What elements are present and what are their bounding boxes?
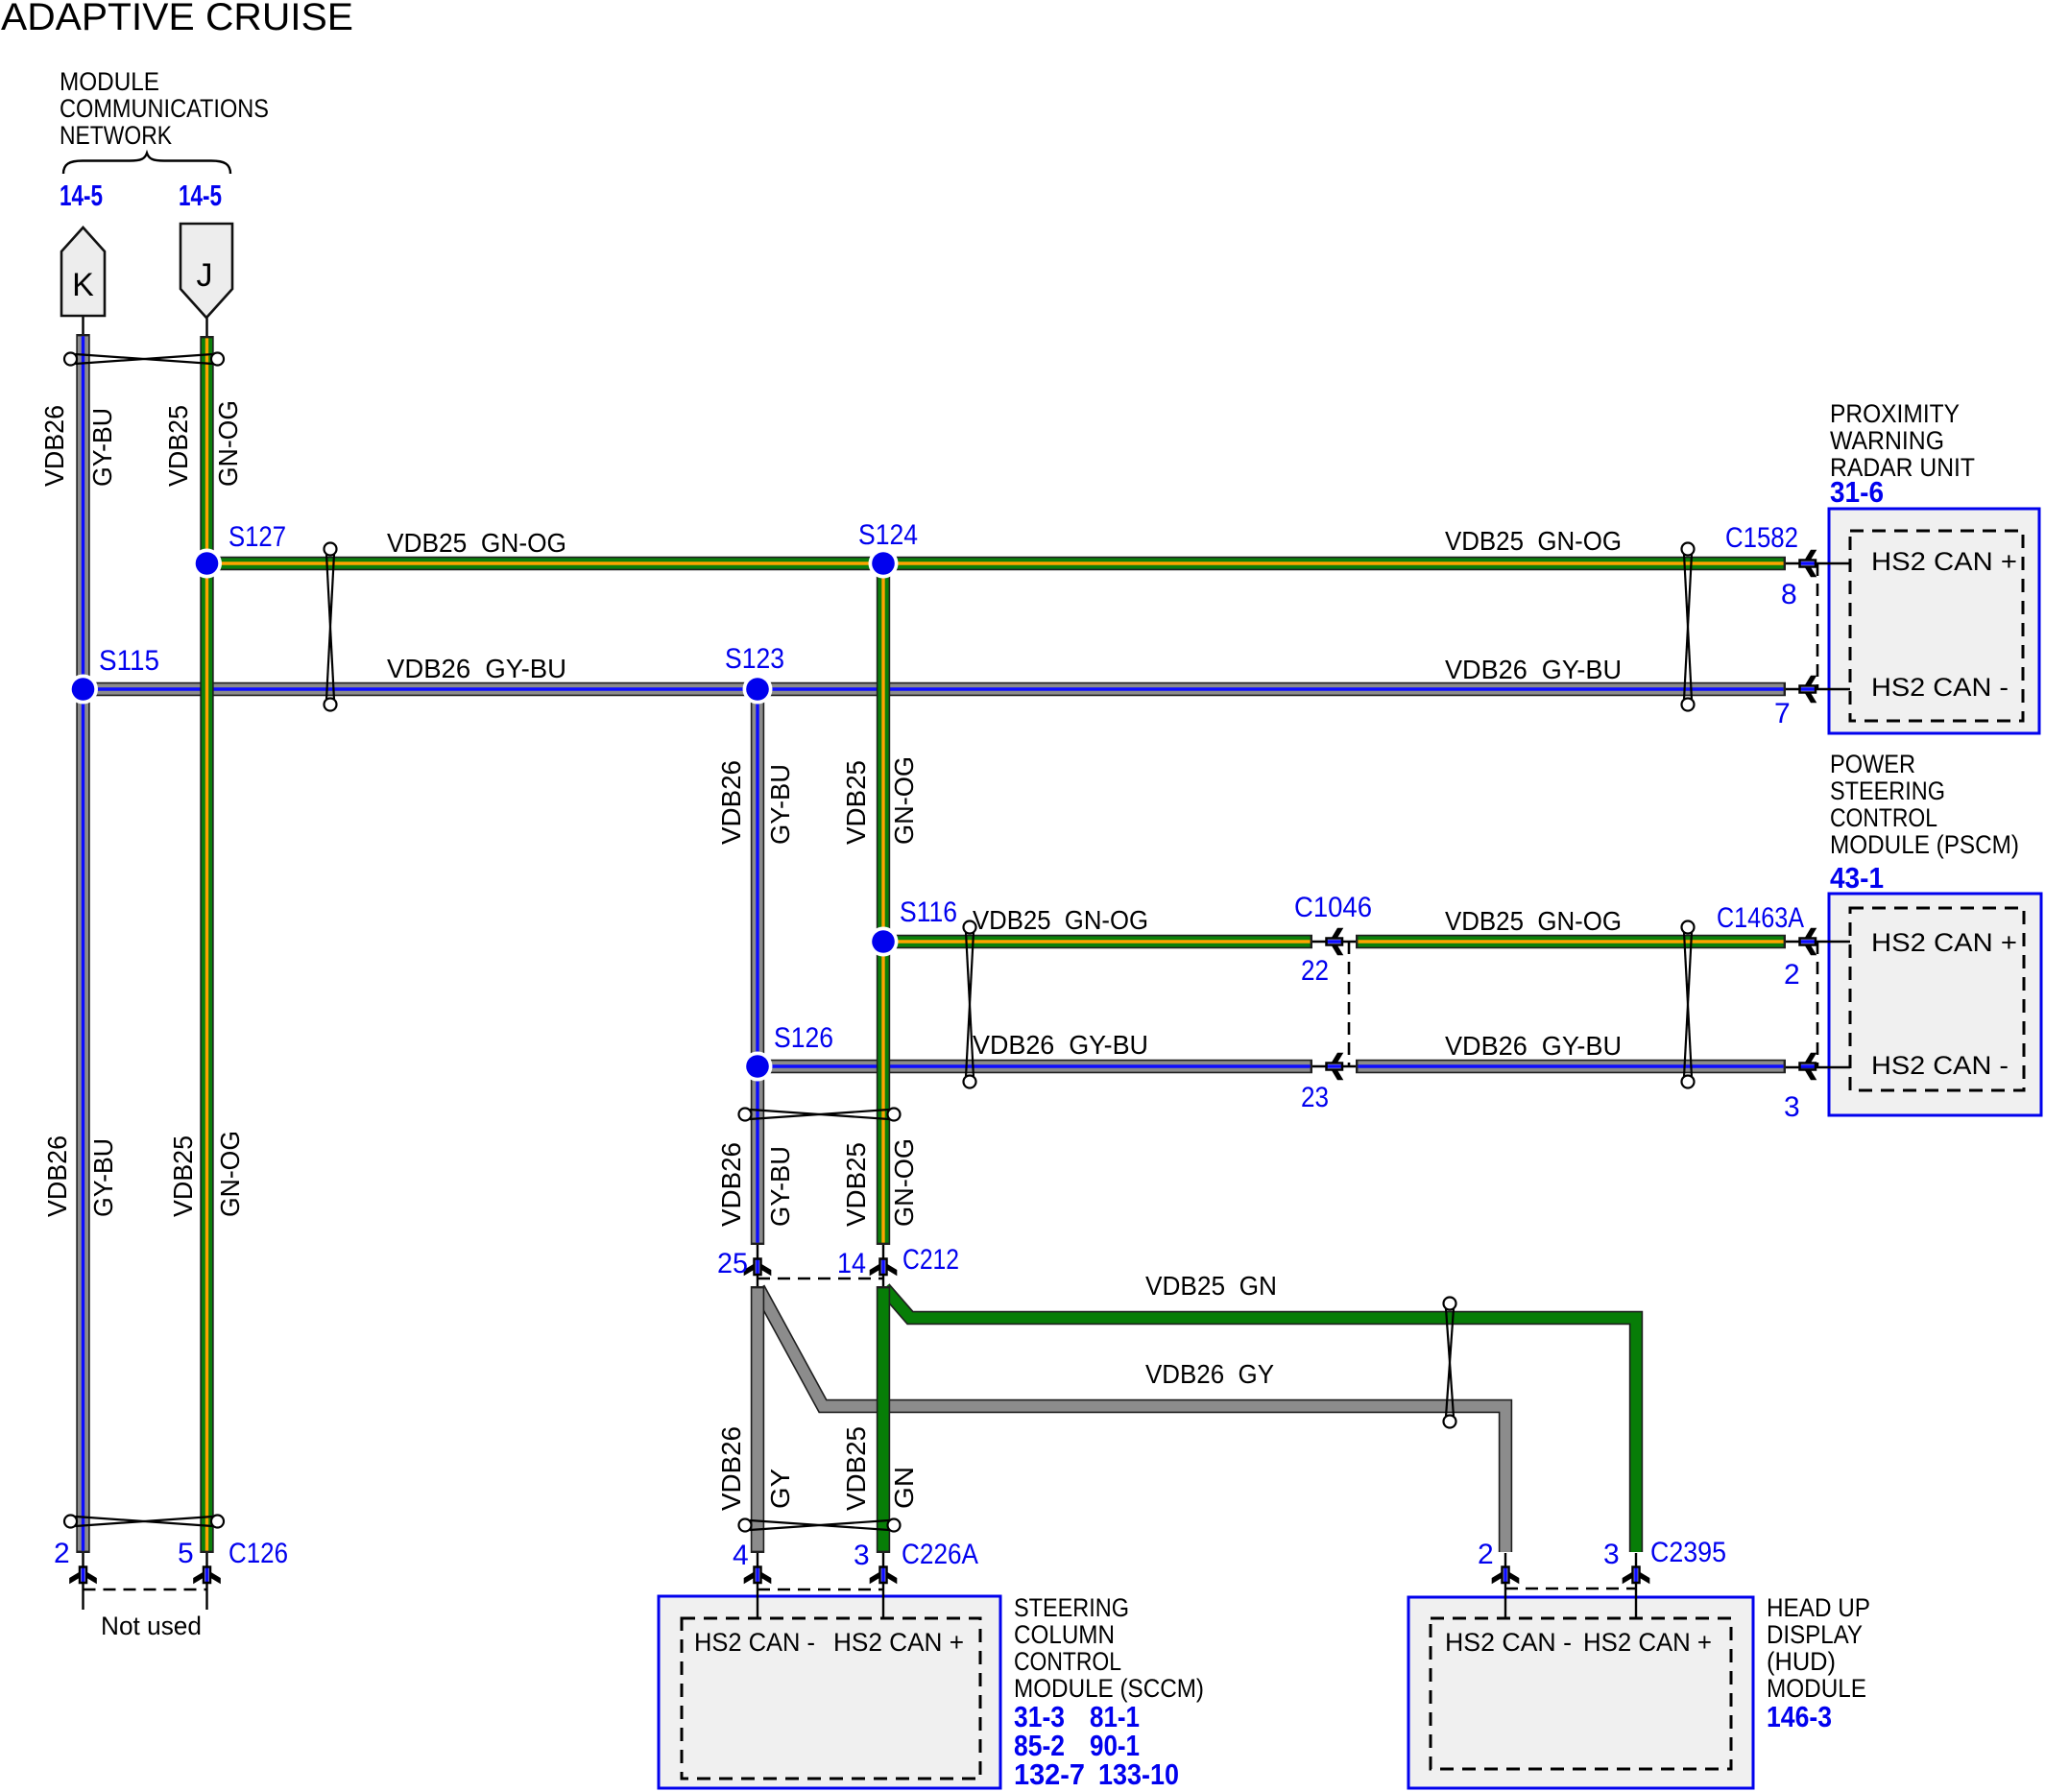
svg-text:3: 3 <box>1784 1091 1800 1123</box>
svg-text:CONTROL: CONTROL <box>1014 1647 1121 1676</box>
svg-text:MODULE (PSCM): MODULE (PSCM) <box>1830 830 2019 859</box>
svg-text:VDB26: VDB26 <box>716 760 746 845</box>
svg-text:K: K <box>72 267 94 303</box>
svg-text:GN-OG: GN-OG <box>213 400 243 487</box>
svg-text:MODULE: MODULE <box>1767 1674 1866 1703</box>
svg-text:PROXIMITY: PROXIMITY <box>1830 399 1960 428</box>
svg-text:VDB26: VDB26 <box>39 405 69 487</box>
svg-text:NETWORK: NETWORK <box>60 121 172 150</box>
svg-text:14: 14 <box>837 1248 866 1279</box>
svg-text:COLUMN: COLUMN <box>1014 1620 1115 1649</box>
svg-text:14-5: 14-5 <box>179 179 222 212</box>
svg-text:23: 23 <box>1301 1082 1329 1113</box>
svg-text:2: 2 <box>1478 1539 1494 1570</box>
svg-text:C1463A: C1463A <box>1717 902 1804 934</box>
svg-text:22: 22 <box>1301 955 1329 987</box>
svg-text:3: 3 <box>1603 1539 1620 1570</box>
svg-text:3: 3 <box>854 1540 870 1571</box>
svg-text:S123: S123 <box>725 643 784 675</box>
svg-text:STEERING: STEERING <box>1830 777 1945 805</box>
svg-text:25: 25 <box>717 1248 748 1279</box>
svg-text:VDB25: VDB25 <box>841 1142 871 1227</box>
svg-text:C1582: C1582 <box>1725 522 1798 554</box>
svg-text:4: 4 <box>733 1540 749 1571</box>
svg-text:VDB26 GY-BU: VDB26 GY-BU <box>973 1030 1148 1060</box>
svg-text:HS2 CAN -: HS2 CAN - <box>694 1628 815 1657</box>
svg-text:HS2 CAN +: HS2 CAN + <box>833 1628 964 1657</box>
svg-text:43-1: 43-1 <box>1830 861 1884 895</box>
svg-text:GN: GN <box>889 1467 919 1509</box>
svg-text:VDB25 GN-OG: VDB25 GN-OG <box>973 905 1148 935</box>
svg-text:GY-BU: GY-BU <box>765 764 795 845</box>
svg-text:VDB26: VDB26 <box>716 1426 746 1511</box>
svg-text:VDB25 GN: VDB25 GN <box>1145 1271 1277 1301</box>
svg-text:2: 2 <box>1784 959 1800 991</box>
svg-text:CONTROL: CONTROL <box>1830 803 1937 832</box>
svg-text:HEAD UP: HEAD UP <box>1767 1593 1870 1622</box>
svg-text:GN-OG: GN-OG <box>215 1131 245 1217</box>
svg-text:VDB26 GY-BU: VDB26 GY-BU <box>1445 655 1622 684</box>
svg-text:VDB25 GN-OG: VDB25 GN-OG <box>387 528 566 558</box>
svg-text:GY-BU: GY-BU <box>87 408 117 487</box>
svg-text:COMMUNICATIONS: COMMUNICATIONS <box>60 94 269 123</box>
svg-text:VDB25: VDB25 <box>841 1426 871 1511</box>
svg-text:DISPLAY: DISPLAY <box>1767 1620 1863 1649</box>
svg-text:VDB25: VDB25 <box>168 1135 198 1217</box>
svg-text:5: 5 <box>178 1538 194 1569</box>
svg-text:S116: S116 <box>900 896 957 928</box>
svg-text:133-10: 133-10 <box>1098 1757 1179 1791</box>
svg-text:HS2 CAN -: HS2 CAN - <box>1871 673 2009 702</box>
svg-text:POWER: POWER <box>1830 750 1915 778</box>
svg-text:GN-OG: GN-OG <box>889 1138 919 1227</box>
svg-text:MODULE (SCCM): MODULE (SCCM) <box>1014 1674 1204 1703</box>
svg-text:2: 2 <box>54 1538 70 1569</box>
svg-text:VDB26 GY: VDB26 GY <box>1145 1359 1274 1389</box>
svg-text:8: 8 <box>1781 579 1797 610</box>
svg-text:GY: GY <box>765 1469 795 1509</box>
svg-text:Not used: Not used <box>101 1612 202 1640</box>
svg-text:VDB26 GY-BU: VDB26 GY-BU <box>387 654 566 683</box>
svg-text:S126: S126 <box>774 1022 833 1054</box>
svg-text:S115: S115 <box>99 645 159 677</box>
svg-text:STEERING: STEERING <box>1014 1593 1129 1622</box>
svg-text:HS2 CAN +: HS2 CAN + <box>1871 547 2017 576</box>
svg-text:GY-BU: GY-BU <box>88 1138 118 1217</box>
svg-text:C226A: C226A <box>902 1539 978 1570</box>
svg-text:VDB26: VDB26 <box>42 1135 72 1217</box>
svg-text:(HUD): (HUD) <box>1767 1647 1836 1676</box>
svg-text:ADAPTIVE CRUISE: ADAPTIVE CRUISE <box>1 0 353 38</box>
svg-text:31-6: 31-6 <box>1830 475 1884 509</box>
svg-text:VDB25 GN-OG: VDB25 GN-OG <box>1445 526 1622 556</box>
svg-text:VDB26: VDB26 <box>716 1142 746 1227</box>
svg-text:HS2 CAN +: HS2 CAN + <box>1583 1628 1712 1657</box>
svg-text:VDB25: VDB25 <box>163 405 193 487</box>
svg-text:C212: C212 <box>902 1244 959 1276</box>
svg-text:C126: C126 <box>229 1538 288 1569</box>
svg-text:146-3: 146-3 <box>1767 1700 1832 1733</box>
svg-text:HS2 CAN -: HS2 CAN - <box>1871 1051 2009 1080</box>
svg-text:7: 7 <box>1774 698 1791 729</box>
svg-text:GN-OG: GN-OG <box>889 756 919 845</box>
svg-text:HS2 CAN +: HS2 CAN + <box>1871 928 2017 957</box>
svg-text:C2395: C2395 <box>1650 1537 1726 1568</box>
svg-text:VDB25 GN-OG: VDB25 GN-OG <box>1445 906 1622 936</box>
svg-text:VDB26 GY-BU: VDB26 GY-BU <box>1445 1031 1622 1061</box>
svg-text:HS2 CAN -: HS2 CAN - <box>1445 1628 1572 1657</box>
svg-text:WARNING: WARNING <box>1830 426 1944 455</box>
svg-text:C1046: C1046 <box>1294 892 1372 923</box>
svg-text:14-5: 14-5 <box>60 179 103 212</box>
svg-text:J: J <box>197 257 213 294</box>
svg-text:MODULE: MODULE <box>60 67 159 96</box>
svg-text:S127: S127 <box>229 521 286 553</box>
svg-text:132-7: 132-7 <box>1014 1757 1085 1791</box>
svg-text:S124: S124 <box>858 519 918 551</box>
svg-text:GY-BU: GY-BU <box>765 1146 795 1227</box>
svg-text:VDB25: VDB25 <box>841 760 871 845</box>
